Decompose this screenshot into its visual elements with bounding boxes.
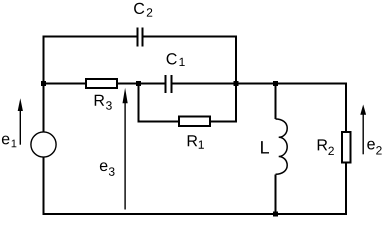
wire R2 branch upper bbox=[345, 83, 347, 132]
label R2 bbox=[318, 139, 334, 155]
label C2 bbox=[134, 3, 152, 17]
label e3 bbox=[100, 162, 115, 175]
resistor R1 bbox=[178, 116, 211, 128]
wire C1 right to R2 branch bbox=[172, 83, 346, 85]
wire R2 branch lower bbox=[345, 163, 347, 215]
node dot rail-left bbox=[41, 81, 46, 86]
label e2 bbox=[367, 141, 381, 155]
label R3 bbox=[95, 95, 112, 110]
source e1 bbox=[31, 132, 56, 157]
node dot L top bbox=[273, 81, 278, 86]
label e1 bbox=[2, 136, 16, 148]
label R1 bbox=[188, 135, 204, 148]
resistor R3 bbox=[85, 78, 118, 89]
wire R1 loop bottom left bbox=[138, 121, 179, 123]
wire L branch lower bbox=[275, 174, 277, 215]
wire left vertical lower bbox=[43, 157, 45, 215]
label C1 bbox=[167, 53, 185, 66]
capacitor C1 bbox=[166, 75, 172, 93]
wire bottom rail bbox=[43, 213, 348, 215]
wire second rail: left to R3 bbox=[43, 83, 86, 85]
arrow e2 bbox=[363, 114, 364, 154]
wire top rail left segment bbox=[43, 36, 138, 38]
inductor L bbox=[276, 119, 288, 174]
label L bbox=[261, 141, 269, 153]
node dot L bottom bbox=[273, 212, 278, 217]
wire L branch upper bbox=[275, 84, 277, 120]
node dot R3/C1 junction bbox=[136, 81, 141, 86]
arrow e3 bbox=[124, 102, 125, 210]
wire R1 loop bottom right bbox=[211, 121, 238, 123]
wire right node vertical (top rail to R1 loop) bbox=[235, 36, 237, 123]
capacitor C2 bbox=[138, 28, 143, 47]
arrow e1 bbox=[20, 108, 21, 145]
wire R1 loop left vertical bbox=[138, 84, 140, 122]
wire top rail right segment bbox=[143, 36, 237, 38]
resistor R2 bbox=[341, 131, 352, 164]
wire R3 to C1 bbox=[117, 83, 166, 85]
wire left vertical upper bbox=[43, 36, 45, 133]
node dot right of C1 bbox=[234, 81, 239, 86]
